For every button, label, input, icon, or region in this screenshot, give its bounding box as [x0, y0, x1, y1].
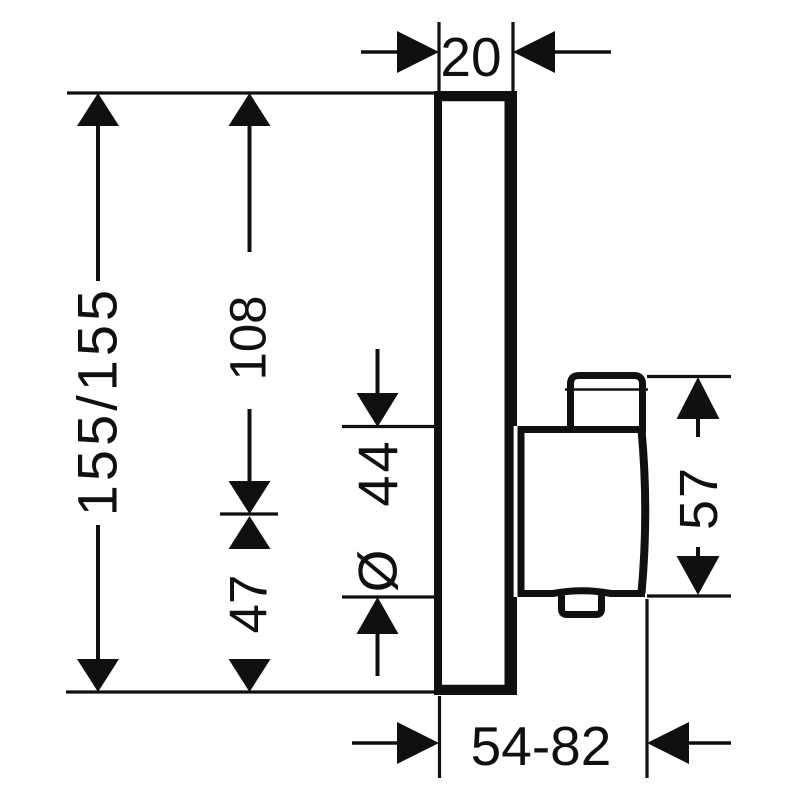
svg-text:47: 47	[220, 575, 279, 634]
svg-text:57: 57	[669, 466, 729, 530]
svg-text:Ø: Ø	[347, 550, 409, 593]
svg-text:155/155: 155/155	[66, 286, 129, 516]
svg-text:54-82: 54-82	[471, 715, 612, 777]
svg-text:44: 44	[346, 438, 409, 506]
svg-text:20: 20	[440, 26, 501, 88]
svg-text:108: 108	[220, 295, 277, 380]
